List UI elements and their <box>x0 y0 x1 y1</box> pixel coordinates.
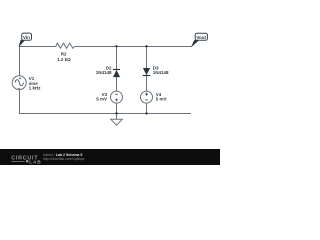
svg-text:1N4148: 1N4148 <box>96 70 112 75</box>
svg-text:Vout: Vout <box>196 35 206 40</box>
svg-text:http://circuitlab.com/c/q5cqw: http://circuitlab.com/c/q5cqw <box>43 157 85 161</box>
svg-text:LAB: LAB <box>29 159 41 165</box>
svg-text:1.2 kΩ: 1.2 kΩ <box>57 57 71 62</box>
svg-text:Admin / Lab 2 Schema 5: Admin / Lab 2 Schema 5 <box>43 153 82 157</box>
svg-text:R2: R2 <box>61 51 67 56</box>
svg-text:5 mV: 5 mV <box>96 96 107 101</box>
svg-text:1N4148: 1N4148 <box>153 70 169 75</box>
svg-text:1 kHz: 1 kHz <box>29 86 42 91</box>
svg-text:Vin: Vin <box>23 35 30 40</box>
svg-text:V1: V1 <box>29 76 35 81</box>
svg-text:sine: sine <box>29 81 39 86</box>
svg-text:5 mV: 5 mV <box>156 96 167 101</box>
